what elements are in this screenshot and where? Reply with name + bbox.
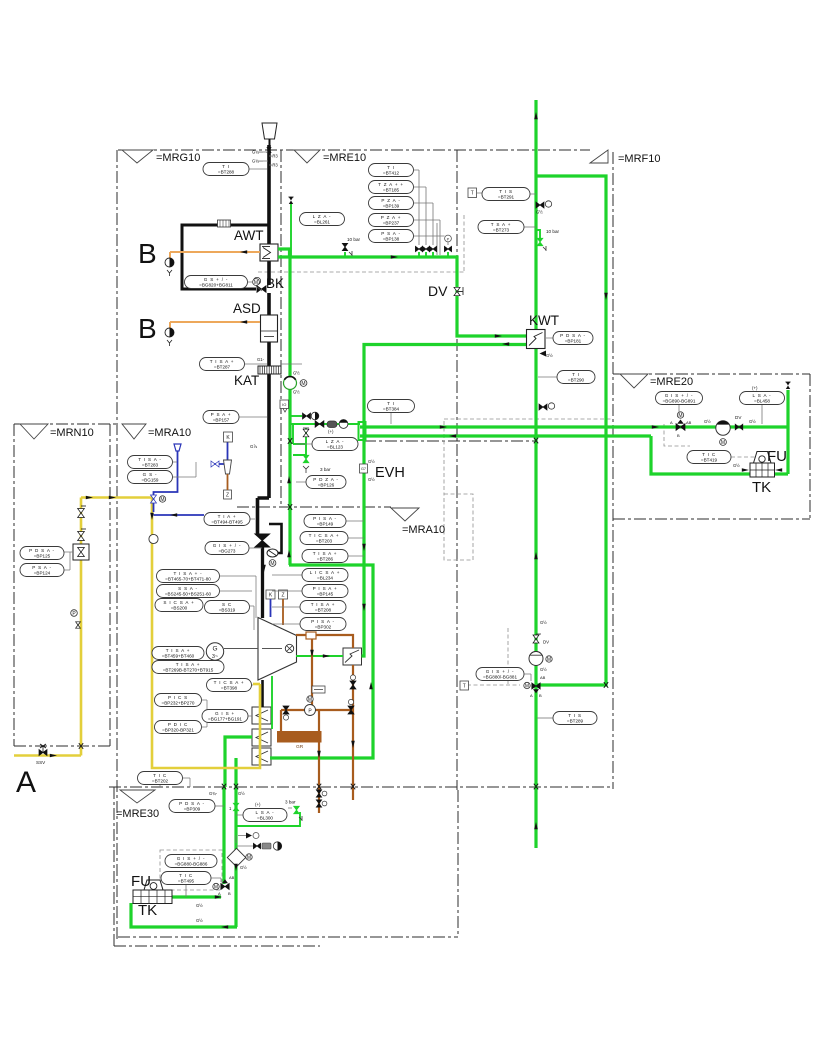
- pipe/boundary crossing ticks: [79, 147, 608, 789]
- svg-text:G½: G½: [293, 390, 300, 395]
- dashed link TIC419: [731, 456, 756, 458]
- svg-text:-R3: -R3: [271, 163, 278, 168]
- zone MRN10 frame: [14, 424, 117, 746]
- AWT outlet pipe elbow: [278, 249, 290, 257]
- svg-text:M: M: [547, 657, 551, 663]
- riser to EVH loop: [270, 565, 373, 758]
- zone label =MRG10: [122, 150, 153, 163]
- condensate pump: [305, 705, 316, 716]
- dosing line: [154, 451, 178, 512]
- box K upper: [224, 432, 233, 442]
- zone MRE30 frame: [114, 787, 320, 946]
- svg-text:=MRE10: =MRE10: [323, 152, 366, 164]
- drain valves bottom: [316, 790, 321, 797]
- flue bypass duct (C shape): [182, 225, 269, 289]
- leader TSA273: [524, 226, 536, 228]
- turbine K Z boxes: [266, 590, 275, 599]
- svg-text:=BT208: =BT208: [315, 608, 332, 613]
- svg-text:=BT286: =BT286: [317, 557, 334, 562]
- safety valve SSV: [39, 750, 47, 756]
- leader TI288 tick: [258, 152, 272, 165]
- svg-text:T I S: T I S: [499, 189, 513, 194]
- svg-text:Z: Z: [226, 492, 229, 498]
- svg-text:G½: G½: [546, 353, 553, 358]
- MRE20 lower run to TK: [651, 436, 788, 474]
- root valve 1: [418, 252, 420, 257]
- svg-text:KAT: KAT: [234, 373, 259, 388]
- KWT vent valve: [540, 351, 547, 357]
- svg-text:=MRE30: =MRE30: [116, 808, 159, 820]
- instrument PDZA- =BP126: [306, 476, 346, 489]
- dashed instrument box MRA10: [444, 494, 473, 560]
- svg-text:=BG890-BG891: =BG890-BG891: [663, 399, 696, 404]
- svg-text:=BT185: =BT185: [383, 188, 400, 193]
- svg-text:B: B: [677, 433, 680, 438]
- fuel line B to ASD: [170, 321, 260, 323]
- svg-text:=BT202: =BT202: [152, 779, 169, 784]
- svg-text:G½: G½: [540, 620, 547, 625]
- flue duct to coolers: [261, 680, 264, 707]
- svg-text:IO: IO: [282, 402, 286, 407]
- svg-text:GR: GR: [296, 744, 304, 750]
- injector tail to Z: [227, 474, 229, 490]
- svg-text:P D S A -: P D S A -: [560, 333, 586, 338]
- yellow drop left: [14, 498, 81, 756]
- EVH connection block: [359, 422, 366, 440]
- instrument LICSA+ =BL234: [302, 569, 348, 582]
- instrument TIA+ =BT494-BT495: [204, 513, 250, 526]
- yellow feed header: [81, 496, 152, 499]
- svg-text:P D Z A -: P D Z A -: [313, 477, 339, 482]
- svg-text:P D S A -: P D S A -: [179, 801, 205, 806]
- svg-text:=BG880/-BG881: =BG880/-BG881: [483, 675, 518, 680]
- bypass silencer block: [218, 220, 231, 227]
- svg-text:=BT291: =BT291: [498, 195, 515, 200]
- svg-text:M: M: [678, 413, 682, 419]
- svg-text:DV: DV: [735, 415, 742, 420]
- instrument LSA- =BL458: [740, 392, 785, 405]
- KAT cooling pump: [284, 377, 297, 390]
- svg-text:TK: TK: [138, 902, 157, 919]
- turbine shaft: [224, 648, 282, 650]
- zone boundary right corner at MRF10: [612, 152, 614, 789]
- 10bar relief on AWT line: [344, 252, 346, 257]
- svg-text:=BS319: =BS319: [219, 608, 236, 613]
- instrument GIS+/- =BG880-BG886: [165, 855, 217, 868]
- svg-text:(+): (+): [255, 802, 261, 807]
- instrument TI =BT288: [203, 163, 249, 176]
- svg-text:BK: BK: [266, 276, 284, 291]
- zone boundary MRG10/MRE10 top line: [118, 149, 590, 151]
- svg-text:P Z A -: P Z A -: [381, 198, 400, 203]
- dashed link MRE20 valve: [664, 424, 690, 446]
- instrument LSA- =BL300: [243, 809, 287, 822]
- fuel line B to AWT: [170, 251, 260, 253]
- exhaust drop: [311, 639, 313, 710]
- svg-text:S S A -: S S A -: [178, 586, 198, 591]
- instrument PSA+ =BP157: [203, 411, 239, 424]
- root valve 2: [425, 252, 427, 257]
- svg-text:=BP157: =BP157: [213, 418, 230, 423]
- dashed boundary above main pipes: [444, 419, 613, 494]
- KWT main riser: [534, 100, 537, 848]
- manifold drops to GR: [281, 710, 319, 731]
- generator G 3~: [206, 643, 223, 660]
- svg-text:G½: G½: [196, 903, 203, 908]
- instrument TIS =BT291: [482, 188, 530, 201]
- svg-text:=BT384: =BT384: [383, 407, 400, 412]
- svg-text:=MRA10: =MRA10: [148, 427, 191, 439]
- svg-text:=BT288: =BT288: [218, 170, 235, 175]
- injector nozzle: [224, 460, 232, 474]
- svg-text:P I S A +: P I S A +: [313, 586, 338, 591]
- T box MRA10: [460, 681, 469, 690]
- chimney outlet: [262, 123, 277, 139]
- condenser cooling line: [296, 655, 343, 657]
- pressure tap circle: [71, 610, 78, 617]
- svg-text:(+): (+): [328, 429, 334, 434]
- svg-text:A: A: [16, 766, 36, 799]
- svg-text:M: M: [254, 280, 258, 286]
- dashed instrument box MRE30: [160, 850, 222, 890]
- KWT return pipe: [362, 345, 528, 657]
- turbine bearing circle: [285, 644, 293, 652]
- svg-text:DV: DV: [428, 283, 448, 299]
- KWT drain valve: [539, 404, 547, 410]
- svg-text:G½: G½: [240, 865, 247, 870]
- svg-text:G I S +: G I S +: [215, 711, 235, 716]
- instrument TI =BT412: [369, 164, 414, 177]
- root valve 3: [432, 252, 434, 257]
- flow arrows: [50, 112, 659, 929]
- svg-text:L S A -: L S A -: [256, 810, 275, 815]
- instrument leader lines misc: [64, 169, 557, 815]
- svg-text:M: M: [721, 440, 725, 446]
- svg-text:T I S A +: T I S A +: [166, 648, 191, 653]
- svg-text:=BL234: =BL234: [317, 576, 333, 581]
- svg-text:T I S A + -: T I S A + -: [173, 571, 202, 576]
- relief 3bar MRE30: [294, 806, 300, 814]
- instrument GIS+/- =BG880/-BG881: [476, 668, 524, 681]
- root valve 4 with PI: [447, 252, 449, 257]
- svg-text:T I S A +: T I S A +: [176, 662, 201, 667]
- svg-text:3 bar: 3 bar: [320, 467, 331, 472]
- svg-text:-R3: -R3: [271, 154, 278, 159]
- instrument leader lines TI/TZA/PZA/PSA: [414, 170, 448, 255]
- svg-text:=BT398: =BT398: [221, 686, 238, 691]
- main supply header: [360, 425, 788, 428]
- instrument TIC =BT202: [138, 772, 183, 785]
- flue jog to venturi: [258, 498, 270, 534]
- silencer ASD: [261, 315, 278, 342]
- instrument SC =BS319: [205, 601, 250, 614]
- box Z upper: [224, 490, 232, 499]
- svg-text:G½: G½: [293, 371, 300, 376]
- svg-text:=BP126: =BP126: [318, 483, 335, 488]
- instrument PDSA- =BP181: [553, 332, 593, 345]
- instrument TIC =BT495: [161, 872, 211, 885]
- svg-text:G½: G½: [749, 419, 756, 424]
- svg-text:=MRE20: =MRE20: [650, 376, 693, 388]
- zone label =MRA10 lower: [391, 508, 419, 521]
- svg-text:P S A -: P S A -: [32, 565, 52, 570]
- svg-text:G½: G½: [368, 459, 375, 464]
- svg-text:M: M: [308, 697, 312, 703]
- flue bypass small loop: [267, 524, 282, 553]
- svg-text:=BT495: =BT495: [178, 879, 195, 884]
- damper BK: [257, 286, 266, 293]
- svg-text:=BT203: =BT203: [316, 539, 333, 544]
- instrument PICS =BP232+BP270: [155, 694, 202, 707]
- svg-text:T I S: T I S: [568, 713, 582, 718]
- svg-text:=BP124: =BP124: [34, 571, 51, 576]
- instrument TISA+ =BT286: [302, 550, 348, 563]
- zone boundary MRG10/MRE10 divider: [280, 150, 282, 507]
- svg-text:B: B: [539, 693, 542, 698]
- svg-text:T I S A -: T I S A -: [138, 457, 161, 462]
- three-way valve MRE30: [221, 883, 229, 889]
- svg-text:ASD: ASD: [233, 301, 261, 316]
- svg-text:M: M: [247, 855, 251, 861]
- svg-text:=BT287: =BT287: [214, 365, 231, 370]
- flue into turbine: [261, 547, 264, 618]
- instrument TZA++ =BT185: [369, 181, 414, 194]
- instrument TICSA+ =BT203: [300, 532, 348, 545]
- yellow stub to TICSA398: [253, 683, 260, 686]
- svg-text:=BT465-70+BT471-80: =BT465-70+BT471-80: [165, 577, 211, 582]
- zone boundary along main pipes: [364, 440, 536, 442]
- T box MRF10: [468, 188, 477, 198]
- svg-text:T I S A +: T I S A +: [313, 551, 338, 556]
- svg-text:=BP138: =BP138: [383, 237, 400, 242]
- instrument SSA- =BS245-50+BS251-60: [157, 585, 220, 598]
- silencer cartridge: [327, 421, 337, 428]
- svg-text:FU: FU: [131, 873, 151, 890]
- leader PDSA309 to riser: [215, 805, 224, 807]
- circulation pump MRE30: [227, 848, 245, 866]
- MRE20 riser right: [786, 390, 789, 474]
- zone label =MRE10: [294, 150, 320, 163]
- svg-text:M: M: [214, 884, 218, 890]
- svg-text:A: A: [670, 420, 673, 425]
- svg-text:T I A +: T I A +: [218, 514, 237, 519]
- svg-text:S C: S C: [222, 602, 232, 607]
- svg-text:G: G: [212, 646, 217, 653]
- svg-text:DV: DV: [543, 640, 549, 645]
- svg-text:G I S + / -: G I S + / -: [486, 669, 515, 674]
- svg-text:=BT273: =BT273: [493, 228, 510, 233]
- svg-text:AB: AB: [686, 420, 692, 425]
- svg-text:P D S A -: P D S A -: [29, 548, 55, 553]
- three-way valve MRE20: [676, 424, 685, 431]
- instrument TIS =BT289: [553, 712, 597, 725]
- main return header: [360, 434, 651, 437]
- svg-text:AB: AB: [540, 675, 546, 680]
- instrument LZA- =BL261: [300, 213, 345, 226]
- svg-text:G½: G½: [540, 667, 547, 672]
- instrument PZA- =BP139: [369, 197, 414, 210]
- instrument SICSA+ =BS200: [155, 599, 203, 612]
- svg-text:G S -: G S -: [143, 472, 158, 477]
- flue gas coolers stack: [252, 707, 271, 724]
- svg-text:SSV: SSV: [36, 760, 46, 765]
- instrument TI =BT290: [557, 371, 595, 384]
- svg-text:=BP320-BP321: =BP320-BP321: [162, 728, 194, 733]
- svg-text:M: M: [160, 497, 164, 503]
- svg-text:=BG159: =BG159: [142, 478, 159, 483]
- instrument TI =BT384: [368, 400, 415, 413]
- svg-text:A: A: [530, 693, 533, 698]
- riser valve MRE30: [233, 803, 239, 811]
- instrument GIS+/- =BG273: [205, 542, 249, 555]
- hotwell valve: [350, 681, 356, 689]
- manifold valve left: [283, 706, 289, 714]
- svg-text:T I C: T I C: [702, 452, 716, 457]
- control valve with PDSA tap: [73, 544, 89, 560]
- instrument TISA+ =BT208: [300, 601, 346, 614]
- yellow line valves: [78, 509, 85, 518]
- blue drop into turbine: [270, 599, 272, 617]
- instrument PSA- =BP138: [369, 230, 414, 243]
- instrument TISA- =BT283: [128, 456, 173, 469]
- venturi flow element BT494: [255, 534, 270, 547]
- dashed link to T-box MRA10: [467, 628, 520, 685]
- svg-text:=BL458: =BL458: [754, 399, 770, 404]
- svg-text:M: M: [301, 381, 305, 387]
- vent valve LZA123: [303, 429, 309, 437]
- svg-text:=BT290: =BT290: [568, 378, 585, 383]
- zone boundary left edge: [116, 150, 118, 940]
- svg-text:=BT289: =BT289: [567, 719, 584, 724]
- instrument PZA+ =BP237: [369, 214, 414, 227]
- GR cooler block: [277, 731, 322, 743]
- leader TIS289: [537, 717, 553, 719]
- svg-text:G7: G7: [361, 467, 366, 471]
- zone label =MRA10: [122, 424, 146, 439]
- svg-text:P I S A -: P I S A -: [313, 516, 337, 521]
- svg-text:G¾-: G¾-: [209, 791, 218, 796]
- instrument GS+/- =BG820+BG811: [185, 276, 248, 289]
- vent valve with PI MRE30: [246, 833, 252, 839]
- svg-text:A: A: [218, 891, 221, 896]
- svg-text:G S + / -: G S + / -: [204, 277, 228, 282]
- svg-text:KWT: KWT: [529, 313, 559, 328]
- valve DV MRE20: [735, 424, 743, 430]
- instrument PDSA- =BP125: [20, 547, 64, 560]
- svg-text:G1-: G1-: [257, 357, 265, 362]
- svg-text:=BG880-BG886: =BG880-BG886: [175, 862, 208, 867]
- svg-text:=BG273: =BG273: [219, 549, 236, 554]
- svg-text:L I C S A +: L I C S A +: [310, 570, 340, 575]
- svg-text:=MRA10: =MRA10: [402, 524, 445, 536]
- instrument LZA- =BL123: [312, 438, 358, 451]
- catalyst KAT: [258, 366, 281, 374]
- boiler TK MRE20: [750, 463, 775, 477]
- dosing valve with M: [151, 495, 157, 503]
- svg-text:G⅞: G⅞: [250, 444, 257, 449]
- instrument TISA+- =BT465-70+BT471-80: [157, 570, 220, 583]
- instrument GIS+ =BG177+BG191: [202, 710, 248, 723]
- svg-text:=BG177+BG191: =BG177+BG191: [208, 717, 242, 722]
- IO box on KAT riser: [280, 400, 289, 409]
- svg-text:10 bar: 10 bar: [546, 229, 559, 234]
- instrument TIC =BT419: [687, 451, 731, 464]
- level gauge box: [312, 686, 325, 693]
- valve row branch at EVH: [290, 423, 360, 425]
- circulation pump MRE20: [716, 421, 730, 435]
- bypass valve with M: [267, 549, 278, 557]
- GS820 leader with M: [253, 279, 260, 286]
- instrument TISA+ =BT459+BT460: [152, 647, 204, 660]
- GR outlet drop: [318, 743, 320, 814]
- cooler circuit MRE30: [225, 737, 252, 787]
- LZA123 branch: [293, 424, 306, 455]
- svg-text:T S A +: T S A +: [491, 222, 511, 227]
- turbine (expander): [258, 618, 297, 681]
- instrument PISA- =BP302: [300, 618, 346, 631]
- zone boundary MRA10 bottom: [109, 786, 613, 788]
- zone MRE20 frame: [613, 374, 810, 519]
- svg-text:=BL123: =BL123: [327, 445, 343, 450]
- svg-text:G½: G½: [368, 477, 375, 482]
- zone label =MRN10: [20, 424, 48, 439]
- svg-text:G½: G½: [704, 419, 711, 424]
- turbine drain green: [271, 676, 273, 729]
- svg-text:P S A -: P S A -: [381, 231, 401, 236]
- yellow drop right: [152, 498, 260, 769]
- svg-text:G½: G½: [238, 791, 245, 796]
- instrument PISA+ =BP145: [302, 585, 348, 598]
- svg-text:G I S + / -: G I S + / -: [177, 856, 206, 861]
- svg-text:=BS200: =BS200: [171, 606, 188, 611]
- svg-text:=BT419: =BT419: [701, 458, 718, 463]
- svg-text:T I C S A +: T I C S A +: [309, 533, 340, 538]
- svg-text:=BP139: =BP139: [383, 204, 400, 209]
- svg-text:G½: G½: [196, 918, 203, 923]
- svg-text:P Z A +: P Z A +: [381, 215, 401, 220]
- svg-text:G I S + / -: G I S + / -: [665, 393, 694, 398]
- zone boundary MRE10 right edge: [456, 150, 458, 790]
- svg-text:L Z A -: L Z A -: [326, 439, 345, 444]
- zone label =MRF10: [590, 150, 608, 163]
- svg-text:G I S + / -: G I S + / -: [213, 543, 242, 548]
- svg-text:Z: Z: [281, 592, 284, 598]
- zone boundary mid crossing: [237, 506, 391, 508]
- svg-text:T I C S A +: T I C S A +: [214, 680, 245, 685]
- svg-text:FU: FU: [767, 448, 787, 465]
- dashed instrument boundary near AWT: [258, 215, 464, 272]
- svg-text:10 bar: 10 bar: [347, 237, 360, 242]
- TK inlet arrows: [742, 468, 749, 472]
- svg-text:=MRN10: =MRN10: [50, 427, 94, 439]
- svg-text:AWT: AWT: [234, 228, 264, 243]
- leader TIC495: [186, 878, 221, 897]
- svg-text:M: M: [525, 683, 529, 689]
- leader GIS880/881: [524, 674, 531, 681]
- svg-text:(+): (+): [752, 386, 758, 391]
- LSA300 branch: [236, 812, 300, 826]
- svg-text:B: B: [138, 238, 157, 269]
- fuel shutoff circle top: [165, 258, 174, 267]
- vent riser LZA261: [290, 204, 292, 257]
- svg-text:L Z A -: L Z A -: [313, 214, 332, 219]
- leader GIS890: [678, 405, 680, 412]
- svg-text:3 bar: 3 bar: [285, 800, 296, 805]
- svg-text:EVH: EVH: [375, 465, 405, 481]
- svg-text:=BP237: =BP237: [383, 221, 400, 226]
- svg-text:P I C S: P I C S: [168, 695, 188, 700]
- leader TIS291: [477, 193, 537, 194]
